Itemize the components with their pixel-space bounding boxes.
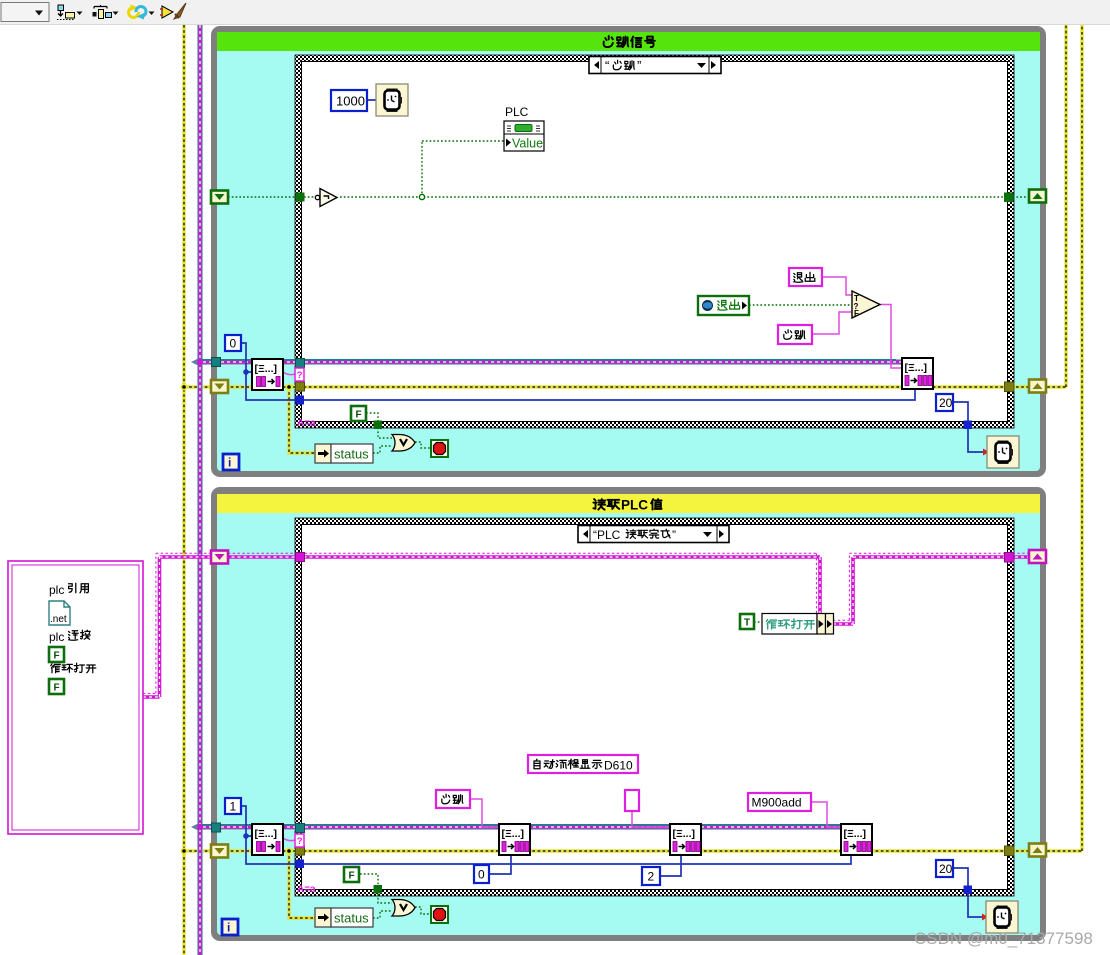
svg-text:“: “ <box>605 58 609 73</box>
VI send-notification #2 (loop2) <box>670 824 701 855</box>
tunnel olive case1 left <box>296 382 305 391</box>
tunnel magenta case2 right <box>1005 553 1015 563</box>
iteration terminal i (loop1) <box>223 454 239 470</box>
wait(ms) icon loop1 bottom right <box>987 436 1019 468</box>
shift register right (boolean, green) <box>1029 190 1046 203</box>
notifier refnum wire (magenta dashed with slate edges) <box>191 25 902 955</box>
svg-text:CSDN @m0_71377598: CSDN @m0_71377598 <box>914 929 1093 948</box>
tunnel green on case1 left border <box>296 193 305 202</box>
numeric constant 0 <box>225 335 241 351</box>
or gate (loop1) <box>392 435 415 452</box>
shift register right (cluster, magenta) <box>1029 550 1046 563</box>
svg-text:2: 2 <box>648 870 655 884</box>
shift register left (error, olive) <box>211 380 228 393</box>
svg-text:20: 20 <box>939 862 953 876</box>
case2 selector ? terminal <box>295 834 304 847</box>
iteration terminal i (loop2) <box>222 919 238 935</box>
string constant 心跳 (loop2) <box>436 790 470 808</box>
svg-text:1: 1 <box>230 800 237 814</box>
VI wait-notification (loop1) <box>252 359 283 390</box>
tunnel olive case2 right <box>1005 846 1015 856</box>
svg-text:0: 0 <box>230 337 237 351</box>
case structure 1 hatched border <box>295 55 1014 428</box>
or gate (loop2) <box>392 900 415 917</box>
case structure 2 hatched border <box>295 518 1014 896</box>
unbundle status (loop1) <box>315 444 373 463</box>
tunnel green case2 bottom <box>374 885 383 894</box>
resize objects icon <box>129 5 155 20</box>
numeric constant 2 (loop2) <box>642 867 660 885</box>
svg-text:“PLC: “PLC <box>593 528 621 542</box>
tunnel blue case1 left <box>296 396 305 405</box>
svg-text:PLC: PLC <box>505 105 529 119</box>
select function <box>852 291 880 318</box>
svg-text:20: 20 <box>939 396 953 410</box>
while loop 1 (heartbeat) border <box>211 26 1046 477</box>
boolean constant F (loop2) <box>344 867 359 882</box>
case 2 selector label "PLC读取完成" <box>578 526 729 543</box>
tunnel teal on loop1 left border <box>212 358 221 367</box>
tunnel blue case2 left <box>296 860 305 869</box>
VI send-notification (loop1) <box>902 358 933 389</box>
boolean constant T <box>740 614 754 629</box>
boolean dotted green wires <box>228 141 1040 918</box>
font combo box <box>1 3 49 22</box>
PLC property node <box>504 105 544 151</box>
svg-text:.net: .net <box>50 614 67 625</box>
numeric constant 1 (loop2) <box>225 798 241 814</box>
string constant M900add <box>748 793 811 811</box>
string (pink) wires <box>283 277 902 841</box>
error cluster wire (yellow/black dashed) verticals and branches <box>184 25 1082 955</box>
numeric constant 0 (loop2) <box>474 865 489 883</box>
svg-text:1000: 1000 <box>336 94 365 109</box>
svg-text:?: ? <box>854 302 859 311</box>
string constant 心跳 (loop1) <box>778 325 812 344</box>
shift register right (error, olive) loop2 <box>1029 844 1046 857</box>
local variable 循环打开 <box>762 614 834 635</box>
VI send-notification #1 (loop2) <box>499 824 530 855</box>
cleanup diagram icon <box>160 3 186 19</box>
distribute objects icon <box>93 5 119 19</box>
shift register right (error, olive) <box>1029 380 1046 393</box>
align objects icon <box>57 5 83 20</box>
svg-text:”: ” <box>672 528 676 542</box>
empty string constant <box>625 790 639 811</box>
shift register left (error, olive) loop2 <box>211 845 228 858</box>
VI wait-notification (loop2) <box>252 824 283 855</box>
tunnel teal on case1 left border <box>296 359 305 368</box>
tunnel blue case2 bottom <box>964 886 973 895</box>
case1 selector ? terminal <box>295 368 304 381</box>
tunnel magenta case2 left <box>296 553 305 562</box>
svg-text:PLC: PLC <box>621 498 648 513</box>
svg-text:plc: plc <box>49 583 64 597</box>
tunnel green on case1 right border <box>1004 193 1014 203</box>
tunnel green case1 bottom <box>374 421 383 430</box>
case 1 selector label "心跳" <box>589 57 721 74</box>
svg-text:”: ” <box>637 58 641 73</box>
svg-text:D610: D610 <box>604 759 633 773</box>
loop 1 green header bar 心跳信号 <box>217 32 1040 51</box>
numeric (blue) wires <box>241 100 989 921</box>
shift register left (cluster, magenta) <box>211 551 228 564</box>
svg-text:A=a: A=a <box>297 418 316 429</box>
loop 2 yellow header bar 读取PLC值 <box>217 494 1040 513</box>
boolean constant F (loop1) <box>351 406 366 421</box>
free label 自动流程显示D610 <box>528 755 638 773</box>
tunnel olive case2 left <box>296 846 305 855</box>
global variable 退出 <box>698 296 749 315</box>
unbundle status (loop2) <box>315 908 373 927</box>
string constant 退出 <box>789 268 822 286</box>
cluster wire (pink dashed) from plc cluster constant <box>143 553 1046 697</box>
tunnel teal case2 left <box>296 824 305 833</box>
wait(ms) icon loop1 top <box>376 84 408 116</box>
shift register left (boolean, green) <box>211 191 228 204</box>
svg-text:M900add: M900add <box>752 796 802 810</box>
svg-text:A=a: A=a <box>297 884 316 895</box>
toolbar <box>0 0 1110 25</box>
stop sign (loop1) <box>431 440 448 457</box>
while loop 2 (read PLC) border <box>211 487 1046 941</box>
svg-text:plc: plc <box>49 630 64 644</box>
wait(ms) icon loop2 bottom right <box>986 901 1018 933</box>
svg-text:0: 0 <box>478 868 485 882</box>
tunnel blue case1 bottom <box>964 421 973 430</box>
error wire junction dots <box>181 384 293 855</box>
not gate <box>315 189 337 207</box>
numeric constant 1000 <box>331 90 367 111</box>
svg-text:Value: Value <box>512 137 543 151</box>
numeric constant 20 (loop1) <box>936 394 953 411</box>
tunnel teal loop2 left border <box>212 823 221 832</box>
tunnel olive case1 right <box>1005 382 1015 392</box>
svg-text:T: T <box>744 618 750 629</box>
VI send-notification #3 (loop2) <box>841 824 872 855</box>
numeric constant 20 (loop2) <box>936 860 953 877</box>
cluster constant (plc refs) <box>8 561 143 834</box>
stop sign (loop2) <box>431 906 448 923</box>
